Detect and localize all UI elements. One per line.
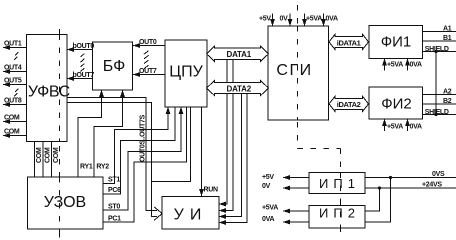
svg-text:COM: COM	[53, 147, 60, 163]
svg-text:ST0: ST0	[108, 204, 120, 211]
svg-text:B1: B1	[443, 35, 452, 42]
svg-text:БФ: БФ	[103, 58, 125, 75]
svg-text:+5V: +5V	[262, 174, 274, 181]
svg-text:OUT1: OUT1	[4, 41, 22, 48]
svg-text:B2: B2	[443, 98, 452, 105]
svg-text:0V: 0V	[262, 183, 271, 190]
svg-text:УФВС: УФВС	[28, 84, 70, 101]
svg-text:A2: A2	[443, 89, 452, 96]
svg-text:УЗОВ: УЗОВ	[44, 194, 86, 211]
svg-text:OUT0S..OUT7S: OUT0S..OUT7S	[140, 114, 147, 162]
svg-text:DATA2: DATA2	[227, 84, 252, 93]
svg-text:0VA: 0VA	[410, 124, 422, 131]
svg-text:COM: COM	[36, 147, 43, 163]
svg-text:COM: COM	[4, 129, 20, 136]
svg-text:COM: COM	[4, 115, 20, 122]
svg-text:SHIELD: SHIELD	[425, 46, 449, 53]
svg-text:PC1: PC1	[108, 216, 121, 223]
svg-text:OUT5: OUT5	[4, 78, 22, 85]
svg-text:+5VA: +5VA	[387, 124, 403, 131]
svg-text:УИ: УИ	[174, 207, 208, 224]
svg-text:iDATA2: iDATA2	[337, 100, 361, 109]
svg-text:DATA1: DATA1	[227, 50, 252, 59]
svg-text:A1: A1	[443, 26, 452, 33]
svg-text:ФИ2: ФИ2	[381, 96, 412, 113]
svg-text:ИП1: ИП1	[319, 176, 360, 191]
svg-text:OUT4: OUT4	[4, 65, 22, 72]
svg-text:OUT0: OUT0	[139, 39, 157, 46]
svg-text:+5VA: +5VA	[387, 62, 403, 69]
svg-text:+5VA: +5VA	[306, 16, 322, 23]
svg-text:0VA: 0VA	[262, 216, 274, 223]
svg-text:0VA: 0VA	[410, 62, 422, 69]
svg-text:+5V: +5V	[259, 16, 271, 23]
svg-text:ЦПУ: ЦПУ	[169, 64, 203, 81]
svg-text:bOUT7: bOUT7	[73, 72, 95, 79]
svg-text:iDATA1: iDATA1	[337, 38, 361, 47]
svg-text:ST1: ST1	[108, 177, 120, 184]
svg-text:0V: 0V	[280, 16, 289, 23]
svg-text:+5VA: +5VA	[262, 205, 278, 212]
svg-text:0VA: 0VA	[326, 16, 338, 23]
svg-text:OUT7: OUT7	[139, 68, 157, 75]
svg-text:+24VS: +24VS	[422, 182, 442, 189]
svg-text:PC6: PC6	[108, 187, 121, 194]
svg-text:ФИ1: ФИ1	[381, 34, 412, 51]
svg-text:SHIELD: SHIELD	[425, 109, 449, 116]
svg-text:OUT8: OUT8	[4, 98, 22, 105]
svg-text:СГИ: СГИ	[276, 62, 312, 79]
svg-text:RUN: RUN	[204, 187, 219, 194]
svg-text:ИП2: ИП2	[319, 206, 360, 221]
svg-text:bOUT0: bOUT0	[73, 43, 95, 50]
svg-text:RY1: RY1	[80, 164, 93, 171]
svg-text:RY2: RY2	[96, 164, 109, 171]
svg-text:COM: COM	[45, 147, 52, 163]
svg-text:0VS: 0VS	[432, 171, 445, 178]
